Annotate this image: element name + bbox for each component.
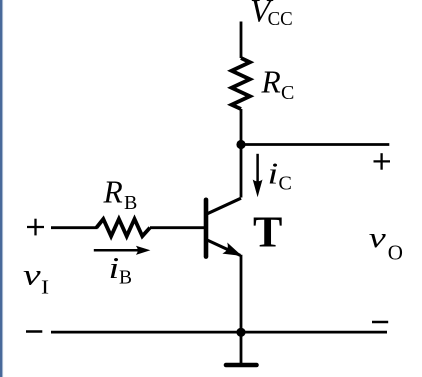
svg-text:C: C — [279, 173, 292, 195]
svg-text:v: v — [23, 258, 41, 291]
svg-text:R: R — [261, 65, 281, 100]
svg-text:v: v — [369, 222, 387, 254]
svg-text:R: R — [103, 174, 123, 209]
svg-text:O: O — [388, 241, 403, 265]
svg-text:T: T — [253, 208, 282, 257]
svg-text:B: B — [119, 268, 132, 289]
svg-text:CC: CC — [268, 7, 293, 30]
svg-text:I: I — [41, 275, 49, 298]
svg-text:i: i — [109, 251, 120, 285]
svg-text:C: C — [281, 82, 294, 104]
svg-text:B: B — [124, 192, 137, 214]
svg-text:i: i — [268, 156, 279, 190]
